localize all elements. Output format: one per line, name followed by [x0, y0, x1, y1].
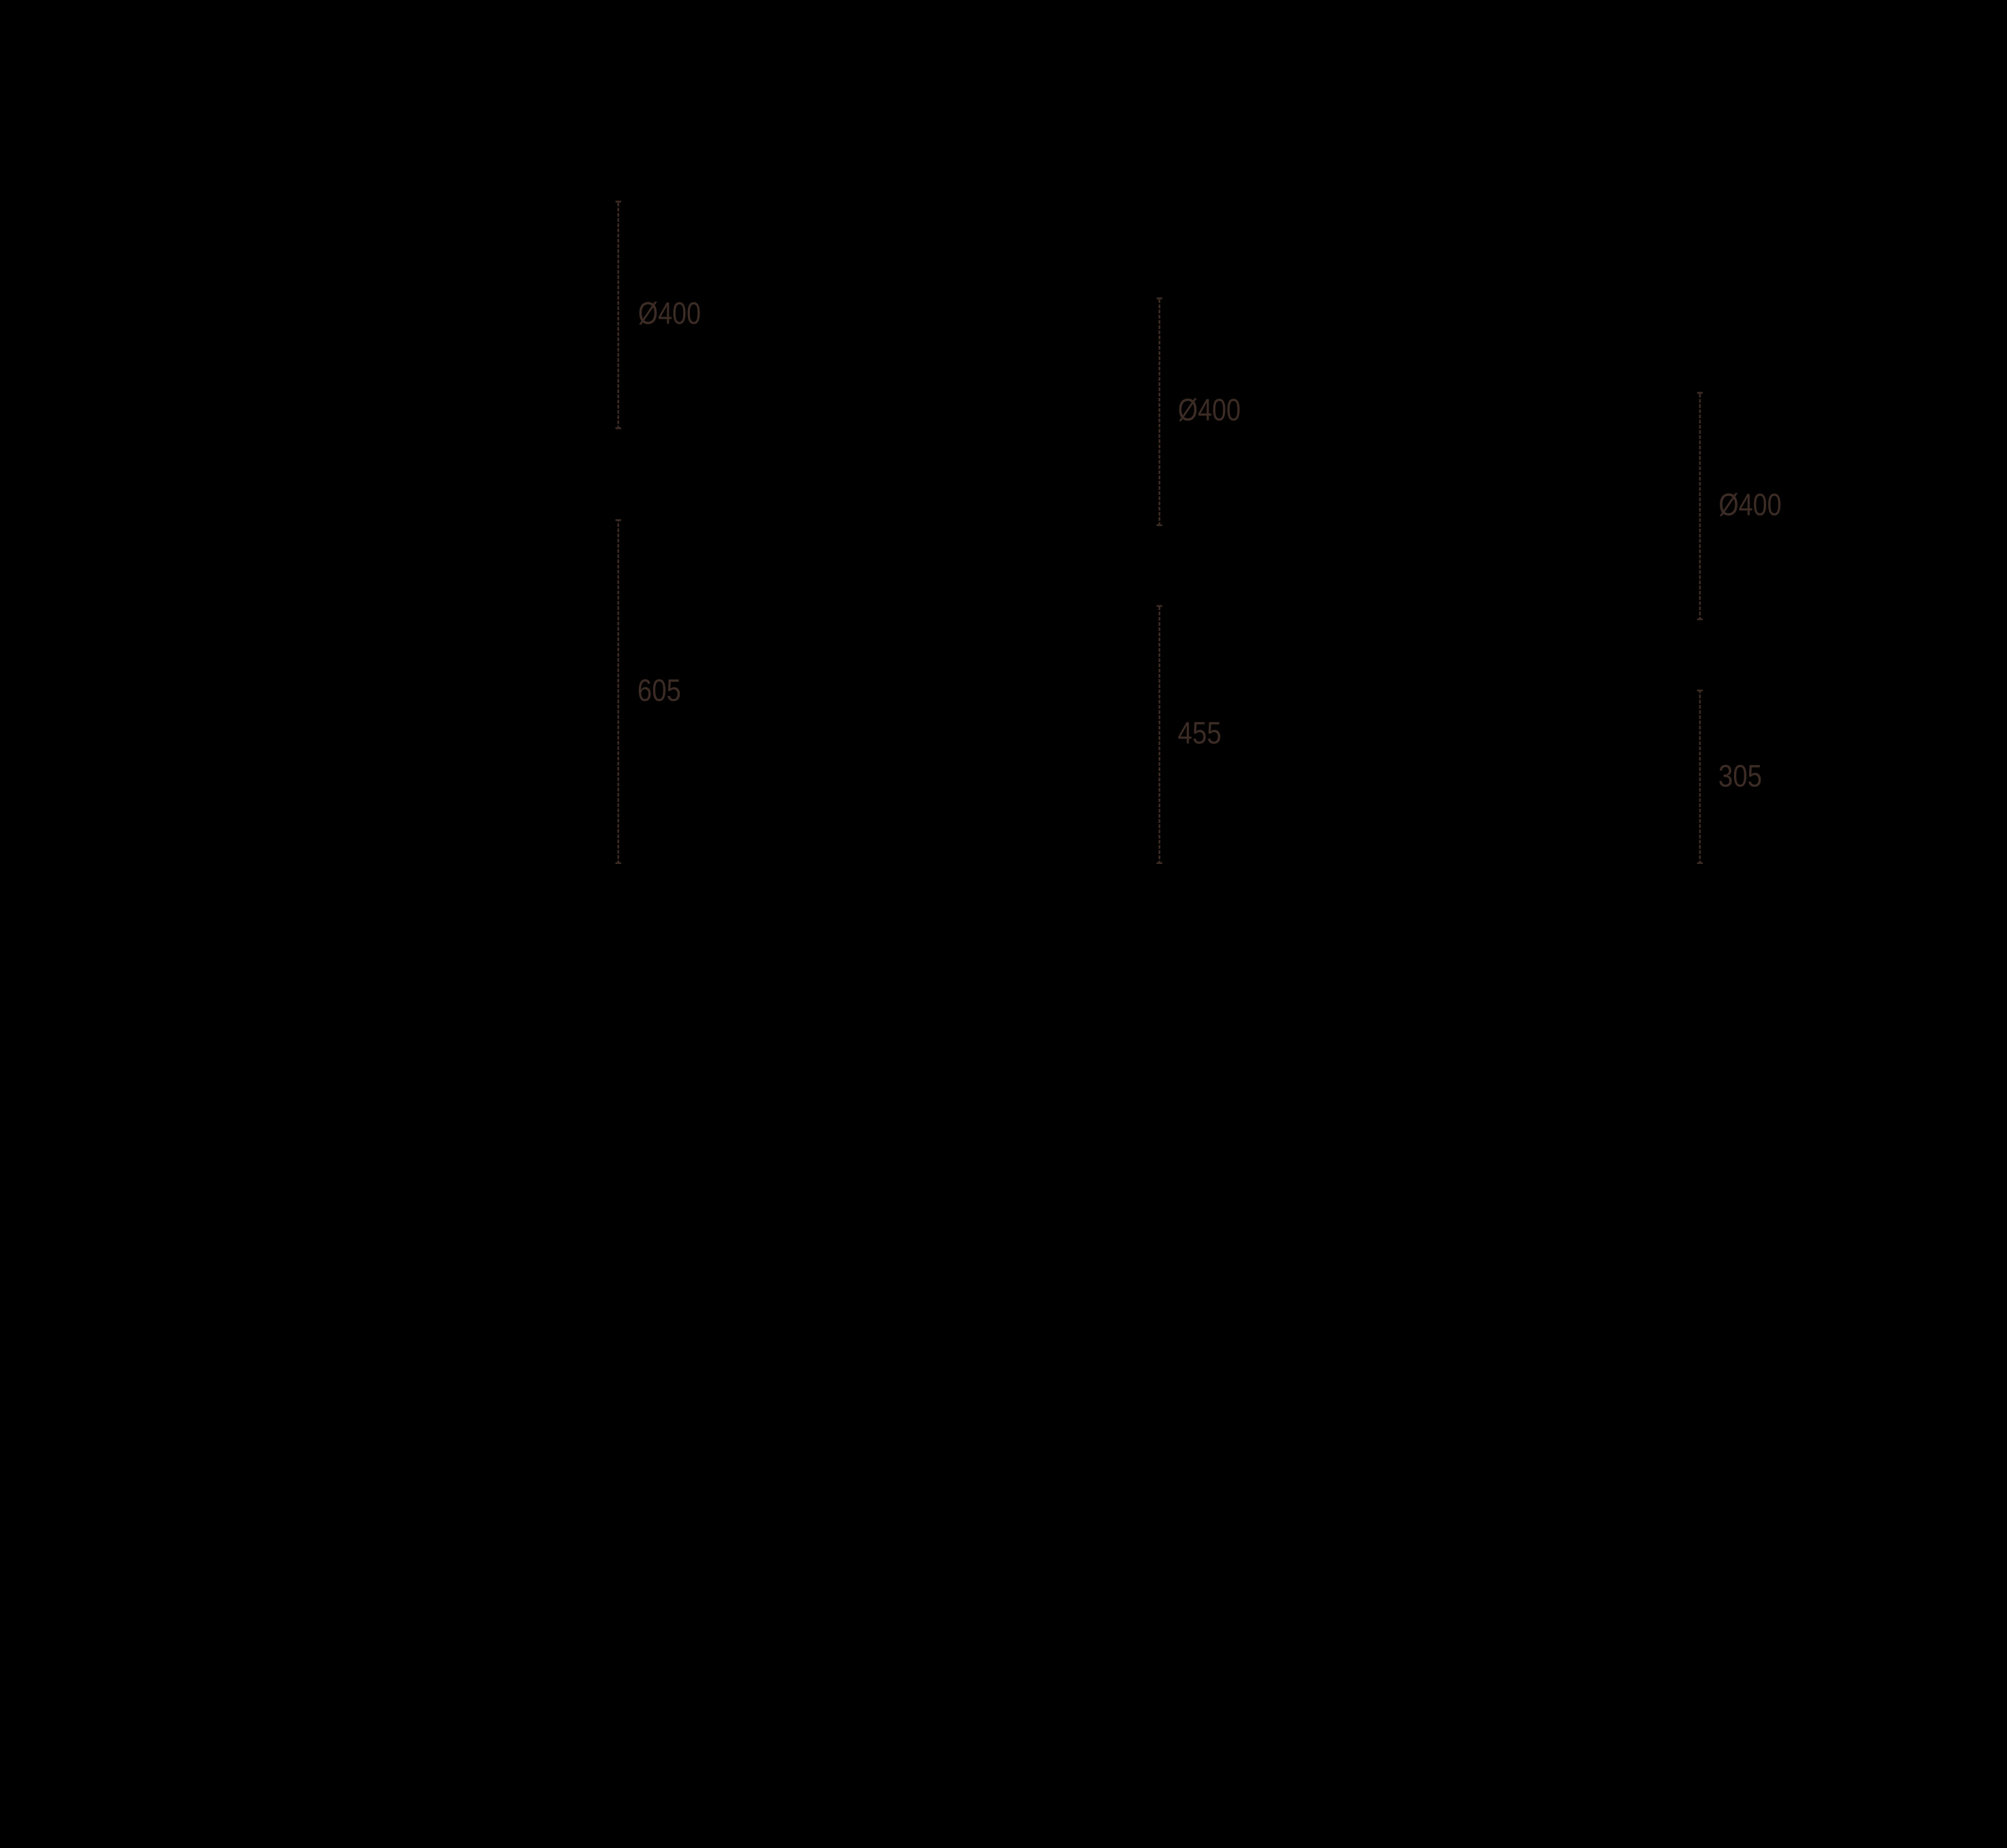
dimension line: middle table height 455	[1157, 606, 1162, 863]
dimension line: left table top diameter	[616, 201, 621, 428]
svg-text:305: 305	[1718, 759, 1762, 794]
dimension line: middle table top diameter	[1157, 298, 1162, 525]
svg-text:Ø400: Ø400	[1178, 392, 1241, 427]
svg-text:Ø400: Ø400	[1719, 487, 1782, 522]
dimension line: right table height 305	[1697, 691, 1703, 863]
dimension line: right table top diameter	[1697, 393, 1703, 620]
svg-text:Ø400: Ø400	[638, 296, 701, 331]
svg-text:455: 455	[1178, 716, 1222, 751]
svg-text:605: 605	[637, 673, 681, 708]
dimension line: left table height 605	[616, 520, 621, 863]
